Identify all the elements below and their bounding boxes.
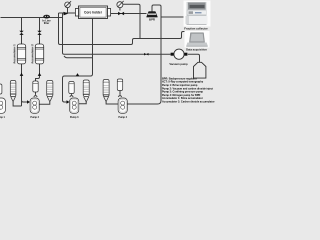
valve V3 core inlet (black triangle) [64, 12, 69, 16]
svg-text:BPR: BPR [149, 18, 155, 22]
data acquisition laptop photo [185, 31, 210, 48]
gauge G1 core inlet [65, 1, 71, 7]
wire confining loop H75.5 [65, 75, 91, 77]
flow arrow up on accumulator1 line [20, 73, 24, 76]
accumulator 2 cylinder [35, 44, 43, 64]
wire bypass line stepping up to laptop [60, 32, 191, 45]
pump1 body (clipped at left edge) [0, 98, 5, 113]
accumulator 1 cylinder [17, 44, 25, 64]
wire outlet drop V140 and gauge2 arch [123, 4, 140, 38]
wire pump4 output [127, 103, 157, 105]
wire main inlet horizontal [1, 17, 63, 19]
wire accumulator2 bottom jog [36, 64, 40, 81]
wire pump1 funnel link [13, 102, 21, 106]
svg-text:Data acquisition: Data acquisition [186, 48, 207, 52]
svg-text:Accumulator 2: Carbon dioxide: Accumulator 2: Carbon dioxide accumulato… [162, 101, 215, 104]
in-line filter body [43, 15, 50, 19]
wire inlet tap V59 [59, 13, 61, 45]
svg-text:Accumulator 1: Accumulator 1 [12, 44, 16, 64]
pump2 piston cylinder [33, 81, 38, 92]
pump3 body [70, 98, 79, 113]
collection flask [194, 62, 206, 78]
svg-text:Vacuum pump: Vacuum pump [169, 62, 188, 66]
valve V2 on accumulator2 stub [37, 31, 41, 35]
pump1 piston sliver [0, 84, 2, 94]
svg-text:Pump 4: Pump 4 [118, 116, 127, 119]
fraction collector photo [184, 1, 211, 27]
wire core outlet line [111, 13, 147, 15]
pump4 body [118, 98, 127, 113]
wire core holder bottom drop V92 [91, 19, 93, 77]
pump2 striped cylinder [47, 81, 53, 102]
flow arrow up on accumulator2 line [38, 73, 42, 76]
wire accumulator2 top stub [39, 18, 41, 45]
svg-text:Pump 2: Pump 2 [30, 116, 39, 119]
wire inlet riser V63 [63, 13, 65, 54]
pump2 body [30, 98, 39, 113]
wire gauge1 stem [67, 8, 69, 14]
wire accumulator1 top stub [21, 18, 23, 45]
wire confining drop V62 [63, 76, 67, 102]
gauge G2 core outlet [117, 1, 124, 8]
wire pump3 piston stem and foot [70, 94, 73, 97]
pump3 striped cylinder [83, 80, 89, 102]
pump1 striped cylinder [10, 81, 16, 102]
svg-text:Core holder: Core holder [84, 11, 103, 15]
vacuum pump [171, 49, 188, 59]
pump3 piston cylinder [69, 82, 74, 94]
wire core inlet horizontal [59, 12, 76, 14]
svg-text:Pump 1: Pump 1 [0, 116, 5, 119]
wire vacuum tap stub H57 [64, 56, 93, 58]
wire pump3 striped funnel link [79, 102, 86, 104]
core holder body [75, 6, 110, 19]
wire pump4 striped funnel link [106, 102, 118, 104]
svg-text:Accumulator 2: Accumulator 2 [30, 44, 34, 64]
pump4 piston cylinder [117, 79, 122, 91]
wire accumulator1 bottom line [21, 64, 23, 106]
wire gauge2 stem [119, 8, 121, 11]
pump4 striped cylinder [103, 80, 109, 102]
wire BPR arch and waste manifold [152, 5, 161, 104]
flow arrow into pump2 [27, 100, 30, 103]
svg-text:Fraction collector: Fraction collector [184, 27, 208, 31]
wire pump2 piston stem and foot [34, 92, 37, 97]
legend text block [162, 77, 215, 103]
svg-text:Pump 3: Pump 3 [70, 116, 79, 119]
wire pump2 feed arrow line [22, 101, 28, 103]
svg-text:filter: filter [44, 21, 50, 25]
wire pump4 piston stem and foot [118, 91, 121, 97]
BPR regulator [147, 12, 158, 22]
valve V5 on vacuum line [144, 53, 148, 56]
valve V4 core outlet (black bowtie) [118, 12, 124, 16]
flow arrow up on confining loop [76, 73, 80, 76]
wire fraction collector line [161, 16, 184, 18]
valve V1 on accumulator1 stub [19, 31, 23, 35]
flow arrow into pump3 [67, 100, 70, 103]
wire vacuum pump to flask [188, 54, 200, 62]
wire pump2 striped funnel link [39, 102, 50, 104]
wire vacuum line [64, 53, 171, 55]
